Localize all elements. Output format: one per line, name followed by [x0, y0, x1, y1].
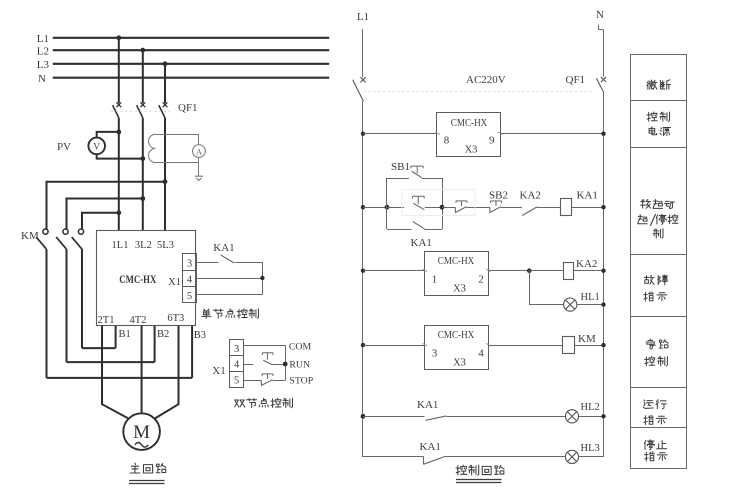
label KA1 latch: [411, 237, 432, 249]
wire RUN left: [244, 364, 254, 366]
CMC-HX box X3 pins 3-4: [425, 326, 489, 370]
junction L1 row5: [361, 414, 366, 419]
svg-text:B1: B1: [119, 329, 131, 340]
svg-text:X1: X1: [212, 365, 225, 377]
wire phase3 drop: [164, 64, 166, 103]
svg-text:B3: B3: [194, 330, 206, 341]
svg-text:X1: X1: [168, 277, 181, 288]
wire B1 stub: [115, 326, 117, 348]
ammeter A letter: [196, 146, 203, 156]
wire motor lead 6T3: [155, 326, 179, 419]
svg-text:1L1: 1L1: [112, 240, 129, 251]
pin 3 digit box3: [432, 348, 438, 360]
wire phase1 drop: [118, 38, 120, 103]
watermark ghost box: [402, 190, 475, 216]
wire branch down to HL1: [530, 271, 564, 305]
pin 4 digit box3: [478, 348, 484, 360]
table row stop indication: [644, 440, 667, 461]
contact KA2: [522, 207, 537, 216]
terminal 4T2: [130, 315, 147, 326]
junction L3 tap: [163, 61, 168, 66]
voltmeter V letter: [93, 143, 100, 153]
svg-text:KA1: KA1: [420, 441, 441, 453]
junction L1 row2: [361, 205, 365, 209]
wire pin3 out: [196, 262, 219, 264]
svg-text:X3: X3: [453, 358, 466, 369]
label B1: [119, 329, 131, 340]
svg-text:3: 3: [432, 348, 438, 360]
ground symbol: [195, 176, 203, 180]
node L1 control label: [357, 11, 369, 23]
caption main circuit: [130, 463, 166, 473]
wire after parallel box: [442, 207, 455, 209]
terminal 1L1: [112, 240, 129, 251]
wire HL2 to N: [579, 416, 604, 418]
caption control circuit underline: [456, 480, 502, 483]
wire row5 mid: [446, 416, 565, 418]
svg-text:KM: KM: [21, 230, 39, 242]
junction N row4: [601, 343, 605, 347]
label X3 box2: [453, 284, 466, 295]
svg-text:X3: X3: [453, 284, 466, 295]
svg-text:KA1: KA1: [417, 399, 438, 411]
pin 3 digit: [187, 258, 192, 269]
svg-text:KA2: KA2: [576, 258, 597, 270]
caption control circuit: [456, 465, 504, 475]
pin tick 4: [486, 343, 491, 346]
label dual node control: [234, 398, 292, 407]
junction L1 row1: [361, 132, 365, 136]
contactor KM bypass contacts: [36, 227, 83, 250]
wire row3 right: [489, 270, 529, 272]
svg-text:5: 5: [187, 291, 192, 302]
function table frame: [631, 55, 687, 469]
junction voltmeter bottom tap: [140, 156, 145, 161]
contact KA1 stop NC: [424, 456, 446, 464]
pushbutton RUN: [262, 353, 273, 365]
pin tick 1: [423, 269, 428, 272]
terminal 2T1: [98, 315, 115, 326]
wire L1 bus: [53, 37, 329, 39]
wire row3 left: [363, 270, 424, 272]
pushbutton SB2: [490, 201, 502, 213]
parallel box left edge: [386, 178, 388, 229]
label CMC-HX main: [119, 274, 157, 286]
terminal 5L3: [157, 240, 174, 251]
wire motor lead 2T1: [102, 326, 129, 419]
label single node control: [202, 309, 259, 319]
junction L1 row4: [361, 343, 365, 347]
pin 4 digit: [187, 275, 193, 286]
label KA2 coil: [576, 258, 597, 270]
wire pin4 out: [196, 278, 262, 280]
svg-text:SB2: SB2: [489, 190, 508, 202]
node N control label: [596, 9, 604, 21]
label KM coil: [578, 333, 596, 345]
soft starter CMC-HX box: [97, 231, 196, 326]
lamp HL2: [565, 410, 578, 423]
label STOP: [289, 376, 313, 387]
svg-text:CMC-HX: CMC-HX: [451, 118, 488, 129]
junction L2 tap: [140, 48, 145, 53]
label KA2 contact: [520, 190, 541, 202]
wire row6 mid: [445, 456, 565, 458]
svg-text:HL1: HL1: [581, 292, 600, 303]
svg-text:N: N: [38, 73, 46, 85]
table row micro-breaker: [647, 80, 671, 89]
svg-text:CMC-HX: CMC-HX: [438, 256, 475, 267]
svg-text:KA1: KA1: [411, 237, 432, 249]
wire bypass tap2: [67, 199, 143, 227]
pin 5 digit: [187, 291, 192, 302]
svg-text:M: M: [133, 422, 150, 443]
svg-text:4: 4: [234, 360, 240, 371]
junction L1 row3: [361, 269, 365, 273]
table row running indication: [643, 400, 666, 425]
wire motor lead 4T2: [141, 326, 143, 413]
label RUN: [289, 359, 310, 370]
wire row1 right: [501, 133, 604, 135]
junction parallel left node: [385, 205, 390, 210]
svg-text:AC220V: AC220V: [466, 74, 506, 86]
svg-text:5: 5: [234, 376, 239, 387]
wire CT secondary top: [156, 135, 199, 145]
svg-text:9: 9: [489, 135, 495, 147]
wire row6 left: [363, 456, 424, 458]
label QF1 main: [178, 102, 198, 114]
parallel box right edge: [442, 178, 444, 229]
svg-text:L1: L1: [357, 11, 369, 23]
svg-text:KM: KM: [578, 333, 596, 345]
wire KA2 coil to N: [574, 270, 604, 272]
svg-text:N: N: [596, 9, 604, 21]
label SB2: [489, 190, 508, 202]
svg-text:4: 4: [187, 275, 193, 286]
junction bypass tap phase2: [140, 196, 145, 201]
relay coil KA2: [564, 263, 574, 280]
table row bypass control: [645, 339, 669, 366]
label B3: [194, 330, 206, 341]
lamp HL1: [564, 298, 577, 311]
table row control power: [647, 112, 671, 136]
label KM contactor: [21, 230, 39, 242]
terminal block X1 pins 3-4-5: [183, 254, 197, 303]
pin tick 2: [486, 269, 491, 272]
voltmeter PV circle: [88, 138, 105, 155]
node L1 bus label: [37, 33, 49, 45]
dual pin 4 digit: [234, 360, 240, 371]
label X1 main box: [168, 277, 181, 288]
current transformer winding: [149, 134, 156, 162]
node L3 bus label: [37, 59, 50, 71]
junction KA2 branch: [527, 268, 532, 273]
junction bypass tap phase3: [163, 179, 168, 184]
wire B2 stub: [154, 326, 156, 362]
wire phase1 to starter: [118, 118, 120, 231]
wire voltmeter bottom: [97, 154, 143, 158]
node N bus label: [38, 73, 46, 85]
label KA1 coil: [577, 190, 598, 202]
wire STOP right: [273, 380, 286, 382]
label SB1: [391, 161, 410, 173]
wire voltmeter top: [97, 132, 119, 138]
contact KA1 latch bottom branch: [387, 221, 442, 229]
wire bypass tap1: [47, 182, 166, 227]
svg-text:QF1: QF1: [178, 102, 198, 114]
label KA1 HL3 row: [420, 441, 441, 453]
junction N row3: [601, 269, 605, 273]
wire L1 control upper: [362, 29, 364, 77]
terminal block X1 dual: [230, 340, 244, 388]
pin 9 digit: [489, 135, 495, 147]
svg-text:HL2: HL2: [581, 402, 600, 413]
wire L3 bus: [53, 63, 329, 65]
svg-text:SB1: SB1: [391, 161, 410, 173]
wire L2 bus: [53, 49, 329, 51]
wire SB2 to KA2: [501, 207, 522, 209]
junction single-node: [260, 276, 264, 280]
wire KA2 to coil: [537, 207, 561, 209]
label B2: [157, 329, 169, 340]
svg-text:4T2: 4T2: [130, 315, 147, 326]
wire L1 to parallel box: [363, 207, 387, 209]
relay coil KA1: [561, 199, 572, 216]
svg-text:KA1: KA1: [213, 242, 234, 254]
contactor coil KM: [563, 337, 575, 354]
contact KA1 blade single-node: [221, 255, 235, 263]
wire KA1 to node: [235, 263, 263, 295]
contact KA1 run: [426, 416, 447, 420]
lamp HL3: [565, 450, 578, 463]
label PV: [57, 141, 71, 153]
phase separator dashed: [364, 91, 593, 93]
svg-text:QF1: QF1: [566, 74, 586, 86]
wire pin5 out: [196, 294, 262, 296]
pushbutton STOP: [261, 374, 273, 386]
breaker linkage dashed: [111, 110, 170, 112]
wire bypass to B2: [67, 361, 155, 363]
wire coil KA1 to N: [572, 207, 604, 209]
table row fault indication: [644, 275, 668, 301]
motor tilde: [135, 443, 148, 448]
svg-text:HL3: HL3: [581, 443, 600, 454]
wire STOP left: [244, 380, 261, 382]
svg-text:STOP: STOP: [289, 376, 313, 387]
motor M letter: [133, 422, 150, 443]
label COM: [289, 342, 312, 353]
wire N control hook: [599, 25, 604, 30]
svg-text:5L3: 5L3: [157, 240, 174, 251]
junction voltmeter top tap: [116, 130, 121, 135]
wire phase2 to starter: [142, 118, 144, 231]
svg-text:A: A: [196, 146, 203, 156]
wire N control upper: [603, 30, 605, 77]
pin 8 digit: [444, 135, 450, 147]
wire N bus: [53, 77, 329, 79]
wire row1 left: [363, 133, 437, 135]
wire bypass to B3: [47, 377, 193, 379]
junction parallel right node: [440, 205, 445, 210]
svg-text:L2: L2: [37, 46, 49, 58]
breaker QF1 control L1 pole: [353, 77, 366, 101]
svg-text:B2: B2: [157, 329, 169, 340]
wire KM2 down: [66, 249, 68, 362]
label X3 box1: [465, 145, 478, 156]
junction L1 tap: [116, 35, 121, 40]
wire row4 left: [363, 345, 424, 347]
svg-text:2T1: 2T1: [98, 315, 115, 326]
motor M circle: [123, 413, 160, 450]
ammeter A circle: [193, 145, 206, 158]
svg-text:KA1: KA1: [577, 190, 598, 202]
svg-text:3L2: 3L2: [135, 240, 152, 251]
CMC-HX box X3 pins 1-2: [425, 252, 489, 296]
circuit breaker QF1 main 3-pole: [113, 102, 168, 117]
dual pin 3 digit: [234, 344, 239, 355]
svg-text:L1: L1: [37, 33, 49, 45]
terminal 6T3: [167, 313, 184, 324]
svg-text:V: V: [93, 143, 100, 153]
label HL2: [581, 402, 600, 413]
wire HL1 to N: [577, 304, 604, 306]
wire ammeter to ground: [198, 157, 200, 176]
svg-text:CMC-HX: CMC-HX: [438, 330, 475, 341]
svg-text:PV: PV: [57, 141, 71, 153]
wire KM3 down: [81, 249, 83, 348]
table row soft start: [638, 199, 678, 238]
svg-text:X3: X3: [465, 145, 478, 156]
svg-text:CMC-HX: CMC-HX: [119, 274, 157, 286]
label AC220V: [466, 74, 506, 86]
terminal 3L2: [135, 240, 152, 251]
label KA1 HL2 row: [417, 399, 438, 411]
junction bypass tap phase1: [116, 210, 121, 215]
wire COM: [244, 345, 286, 347]
svg-text:3: 3: [234, 344, 239, 355]
wire KM coil to N: [574, 345, 603, 347]
pin tick 9: [498, 132, 503, 135]
junction N row2: [601, 205, 605, 209]
wire to SB2: [467, 207, 490, 209]
caption main circuit underline: [129, 481, 165, 484]
pin tick 3: [423, 343, 428, 346]
label QF1 control: [566, 74, 586, 86]
wire bypass tap3: [82, 213, 119, 227]
label HL3: [581, 443, 600, 454]
wire B3 stub: [191, 326, 193, 378]
junction N row1: [601, 132, 605, 136]
wire row5 left: [363, 416, 425, 418]
label CMC-HX box2: [438, 256, 475, 267]
pin 1 digit: [432, 274, 438, 286]
breaker QF1 control N pole: [596, 77, 606, 92]
wire L1 control vertical: [362, 101, 364, 457]
svg-text:L3: L3: [37, 59, 50, 71]
wire CT secondary bottom: [156, 162, 199, 164]
svg-text:RUN: RUN: [289, 359, 310, 370]
svg-text:1: 1: [432, 274, 438, 286]
svg-text:2: 2: [478, 274, 484, 286]
svg-text:COM: COM: [289, 342, 312, 353]
label X1 dual: [212, 365, 225, 377]
label KA1 single-node: [213, 242, 234, 254]
wire COM-RUN-STOP node: [285, 346, 287, 381]
svg-text:6T3: 6T3: [167, 313, 184, 324]
wire row4 right: [489, 345, 563, 347]
wire HL3 to N: [579, 456, 604, 458]
junction RUN node: [283, 362, 288, 367]
node L2 bus label: [37, 46, 49, 58]
pin 2 digit: [478, 274, 484, 286]
pushbutton unlabeled: [455, 201, 467, 213]
svg-text:4: 4: [478, 348, 484, 360]
svg-text:3: 3: [187, 258, 192, 269]
pushbutton middle branch: [387, 196, 442, 210]
pin tick 8: [436, 132, 441, 135]
label CMC-HX box1: [451, 118, 488, 129]
wire bypass to B1: [82, 347, 116, 349]
label X3 box3: [453, 358, 466, 369]
dual pin 5 digit: [234, 376, 239, 387]
wire phase3 to starter: [164, 118, 166, 231]
svg-text:KA2: KA2: [520, 190, 541, 202]
pushbutton SB1 top branch: [387, 166, 442, 178]
junction N row5: [601, 414, 605, 418]
wire RUN right: [271, 364, 285, 366]
svg-text:8: 8: [444, 135, 450, 147]
CMC-HX box X3 pins 8-9: [437, 113, 501, 157]
label CMC-HX box3: [438, 330, 475, 341]
wire N control vertical: [603, 92, 605, 457]
label HL1: [581, 292, 600, 303]
wire to KA2 coil: [529, 270, 563, 272]
wire phase2 drop: [142, 50, 144, 103]
wire KM1 down: [46, 249, 48, 378]
junction N HL1: [601, 302, 605, 306]
